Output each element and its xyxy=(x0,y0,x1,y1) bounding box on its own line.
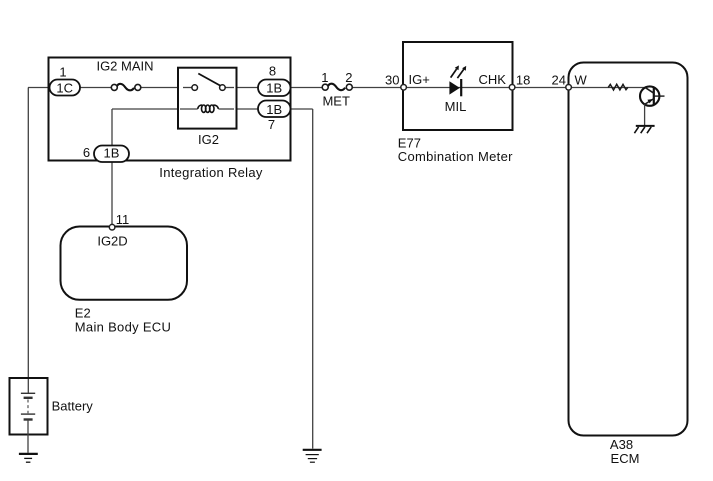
relay switch blade xyxy=(198,74,220,86)
svg-text:1C: 1C xyxy=(56,80,73,95)
battery cell plates xyxy=(21,393,35,419)
node pin 18 xyxy=(509,85,515,91)
transistor Q1 xyxy=(640,86,665,105)
relay IG2 inner box xyxy=(178,68,237,129)
svg-text:W: W xyxy=(575,72,588,87)
ground battery xyxy=(19,454,38,462)
resistor xyxy=(608,84,628,90)
wire battery to ground xyxy=(27,420,29,453)
svg-text:11: 11 xyxy=(116,212,130,227)
relay switch contacts xyxy=(183,85,234,91)
combination meter box E77 xyxy=(403,42,513,130)
fuse MET xyxy=(322,84,352,91)
svg-text:7: 7 xyxy=(268,117,275,132)
svg-text:ECM: ECM xyxy=(611,451,640,466)
wire fuse to relay switch xyxy=(141,87,192,89)
battery box xyxy=(10,378,48,435)
wire 1C to IG2 MAIN fuse xyxy=(28,87,113,89)
svg-text:1B: 1B xyxy=(266,81,282,96)
svg-text:IG2 MAIN: IG2 MAIN xyxy=(96,59,153,74)
wire left vertical to battery xyxy=(27,88,29,394)
svg-text:30: 30 xyxy=(385,72,399,87)
svg-text:Main Body ECU: Main Body ECU xyxy=(75,320,171,335)
svg-text:E77: E77 xyxy=(398,135,421,150)
wire right vertical to ground xyxy=(312,109,314,449)
wire coil to pin 7 and jog right xyxy=(219,108,313,110)
svg-text:CHK: CHK xyxy=(479,72,507,87)
connector 1B pin 8 xyxy=(258,80,291,97)
node pin 30 xyxy=(401,85,407,91)
svg-text:1B: 1B xyxy=(266,102,282,117)
svg-text:1B: 1B xyxy=(104,146,120,161)
node pin 11 xyxy=(109,224,115,230)
svg-text:2: 2 xyxy=(345,70,352,85)
connector 1B pin 7 xyxy=(258,101,291,118)
svg-text:18: 18 xyxy=(516,72,530,87)
wire center vertical to IG2D pin 11 xyxy=(111,109,113,224)
main body ECU box E2 xyxy=(61,227,188,300)
svg-text:A38: A38 xyxy=(610,437,633,452)
wire transistor emitter xyxy=(644,104,646,125)
wire coil row left xyxy=(112,108,198,110)
ground ECM internal xyxy=(634,126,654,133)
svg-text:IG+: IG+ xyxy=(409,72,430,87)
svg-text:E2: E2 xyxy=(75,306,91,321)
LED MIL xyxy=(449,65,466,96)
svg-text:24: 24 xyxy=(552,72,566,87)
Integration Relay box xyxy=(49,58,291,161)
ECM box A38 xyxy=(569,63,688,436)
svg-text:1: 1 xyxy=(59,64,66,79)
wire relay switch to MET fuse xyxy=(225,87,323,89)
svg-text:MIL: MIL xyxy=(445,99,467,114)
svg-text:MET: MET xyxy=(322,93,350,108)
ground center xyxy=(303,450,322,462)
svg-text:Integration Relay: Integration Relay xyxy=(159,165,263,180)
connector 1C xyxy=(50,80,81,96)
svg-text:Battery: Battery xyxy=(52,399,94,414)
svg-text:Combination Meter: Combination Meter xyxy=(398,149,513,164)
connector 1B pin 6 xyxy=(94,146,129,163)
fuse IG2 MAIN xyxy=(111,84,141,91)
svg-text:IG2: IG2 xyxy=(198,132,219,147)
svg-text:IG2D: IG2D xyxy=(97,233,127,248)
node pin 24 xyxy=(566,85,572,91)
relay coil xyxy=(180,105,234,112)
svg-text:1: 1 xyxy=(321,70,328,85)
svg-text:8: 8 xyxy=(269,64,276,79)
wire MET fuse to ECM pin 24 through meter xyxy=(352,87,645,89)
svg-text:6: 6 xyxy=(83,145,90,160)
